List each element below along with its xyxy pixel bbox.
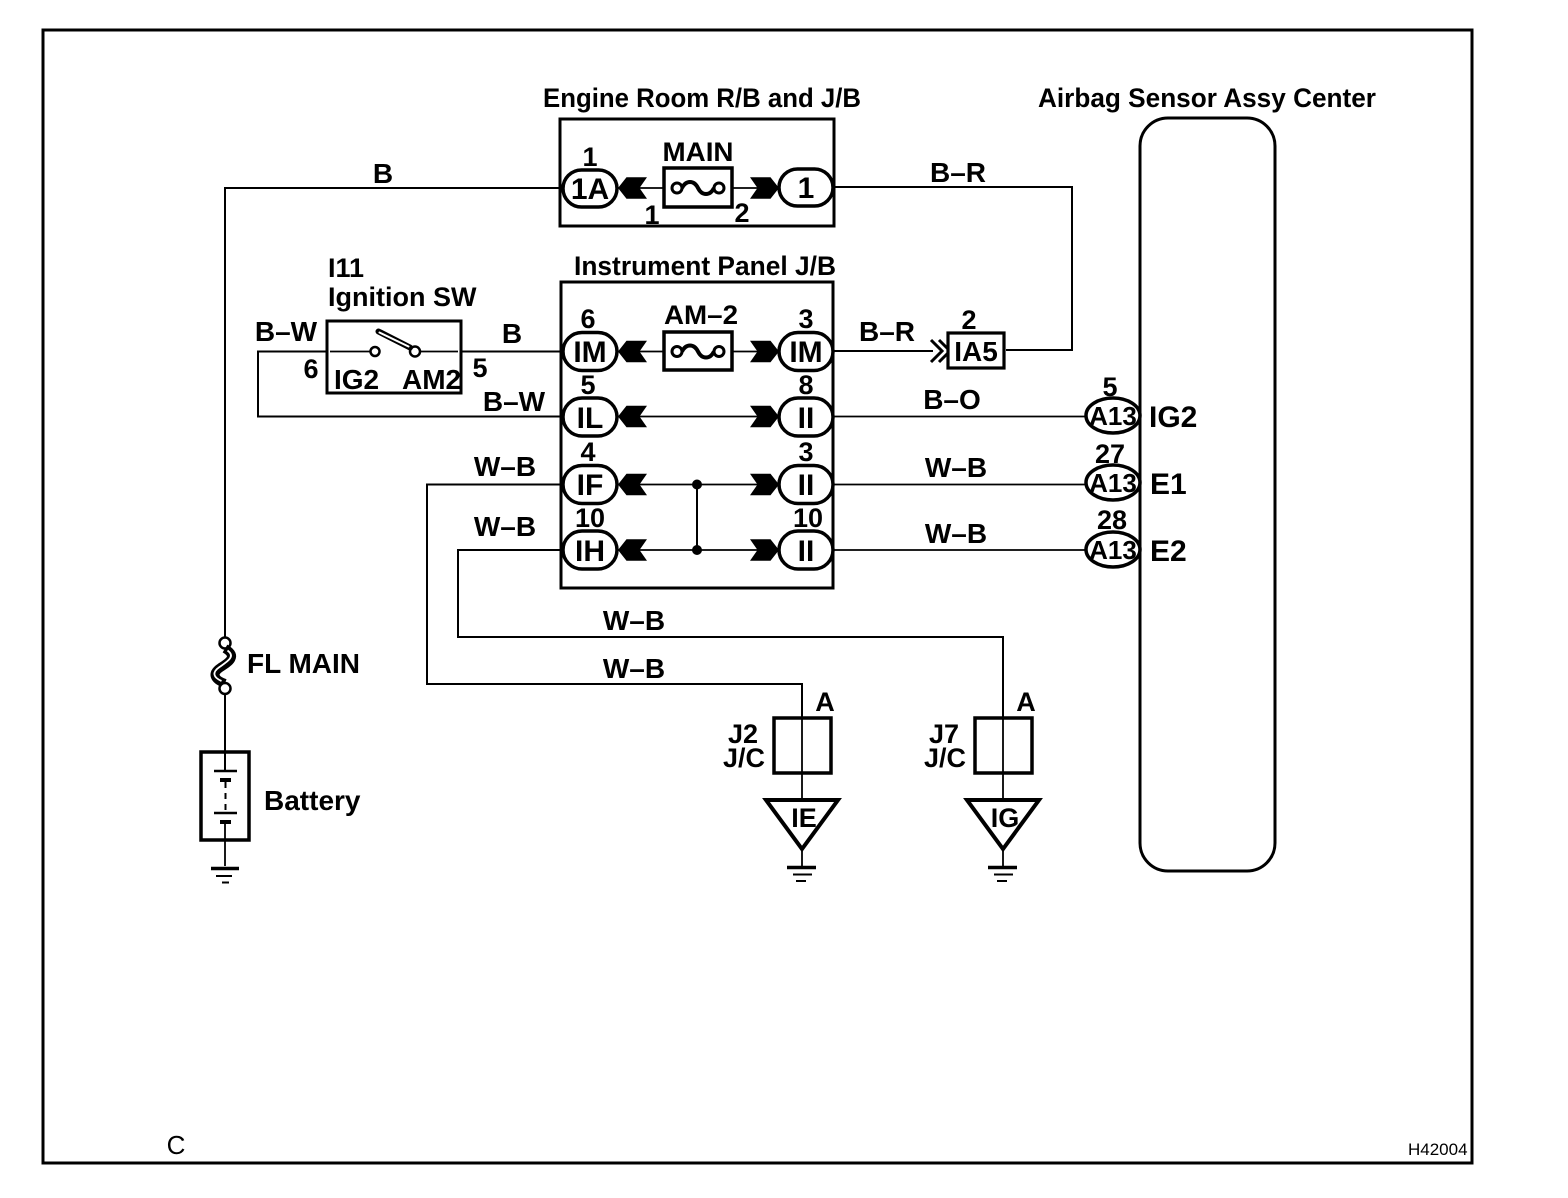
wire B-O (II pin 8 to A13 IG2) [833, 416, 1086, 418]
svg-text:W–B: W–B [603, 605, 665, 636]
svg-text:2: 2 [734, 198, 749, 228]
connector A13 pin 27 (E1) [1086, 439, 1187, 501]
svg-text:B: B [502, 318, 522, 349]
wire W-B (II pin 3 to A13 E1) [833, 484, 1086, 486]
connector 1A pin 1 [563, 142, 617, 207]
fuse MAIN [663, 137, 734, 207]
svg-text:IL: IL [577, 402, 604, 435]
fusible link FL MAIN [214, 638, 360, 695]
svg-text:I11: I11 [328, 253, 364, 283]
connector IA5 pin 2 [931, 305, 1004, 368]
svg-text:FL MAIN: FL MAIN [247, 648, 360, 679]
bus wire linking IF and IH rows [692, 480, 702, 556]
svg-text:B–W: B–W [255, 316, 318, 347]
fuse AM-2 [664, 300, 738, 370]
svg-text:AM–2: AM–2 [664, 300, 738, 330]
svg-text:AM2: AM2 [402, 364, 461, 395]
ground (battery) [211, 869, 239, 883]
wire B (AM2 to IM) [461, 351, 563, 353]
wire W-B (IF to J2 junction) [427, 485, 802, 719]
wire (FL MAIN to battery) [224, 694, 226, 771]
airbag sensor assy center [1038, 83, 1376, 871]
svg-text:3: 3 [798, 304, 813, 334]
svg-text:E1: E1 [1150, 468, 1187, 501]
svg-text:2: 2 [961, 305, 976, 335]
junction connector J2 J/C pin A [723, 687, 835, 773]
connector II pin 8 [779, 370, 833, 436]
svg-text:Airbag Sensor Assy Center: Airbag Sensor Assy Center [1038, 83, 1376, 113]
connector A13 pin 5 (IG2) [1086, 372, 1197, 434]
svg-text:A13: A13 [1089, 535, 1137, 565]
svg-text:4: 4 [580, 437, 595, 467]
svg-text:3: 3 [798, 437, 813, 467]
ground IG [967, 800, 1039, 881]
connector 1 [779, 169, 833, 206]
svg-text:II: II [798, 402, 815, 435]
svg-text:10: 10 [575, 503, 605, 533]
connector IH pin 10 [563, 503, 617, 569]
wire arrow (left, to IL) [618, 406, 647, 427]
svg-text:IM: IM [789, 336, 822, 369]
svg-text:W–B: W–B [474, 511, 536, 542]
wire arrow (right, to IM pin 3) [732, 341, 779, 362]
connector A13 pin 28 (E2) [1086, 505, 1187, 568]
svg-text:Ignition SW: Ignition SW [328, 282, 477, 312]
battery [201, 752, 361, 866]
svg-text:IH: IH [575, 535, 605, 568]
svg-text:Instrument Panel J/B: Instrument Panel J/B [574, 251, 836, 281]
wire W-B (IH to J7 junction) [458, 550, 1003, 718]
wire B-R (IM pin 3 to IA5) [833, 350, 933, 352]
svg-text:6: 6 [303, 354, 318, 384]
svg-text:B–R: B–R [859, 316, 915, 347]
svg-text:A: A [1016, 687, 1036, 717]
wire arrow (right, to II pin 10) [750, 539, 779, 560]
wire (J2 to ground IE) [801, 718, 803, 800]
connector II pin 3 [779, 437, 833, 504]
connector IM pin 6 [563, 304, 617, 371]
ground IE [766, 800, 838, 881]
wire arrow (left, to IH) [618, 539, 647, 560]
svg-text:IG: IG [991, 803, 1020, 833]
svg-text:5: 5 [580, 370, 595, 400]
svg-text:8: 8 [798, 370, 813, 400]
wire B (battery feed up-left and across to 1A) [225, 188, 562, 640]
svg-text:MAIN: MAIN [663, 137, 734, 167]
svg-text:IG2: IG2 [1149, 401, 1197, 434]
svg-text:W–B: W–B [603, 653, 665, 684]
connector IF pin 4 [563, 437, 617, 504]
connector IM pin 3 [779, 304, 833, 371]
svg-text:W–B: W–B [925, 452, 987, 483]
ignition switch I11 [327, 253, 477, 395]
svg-text:J/C: J/C [723, 743, 765, 773]
svg-text:J/C: J/C [924, 743, 966, 773]
svg-text:1A: 1A [571, 173, 609, 206]
svg-text:B–O: B–O [923, 384, 981, 415]
svg-text:II: II [798, 535, 815, 568]
svg-text:A13: A13 [1089, 468, 1137, 498]
wire W-B (II pin 10 to A13 E2) [833, 549, 1086, 551]
svg-text:Battery: Battery [264, 785, 361, 816]
svg-text:IG2: IG2 [334, 364, 379, 395]
wire arrow (right, to II pin 3) [750, 474, 779, 495]
wire B-R (connector 1 to IA5) [833, 187, 1072, 350]
junction block Engine Room R/B and J/B [543, 83, 861, 226]
connector II pin 10 [779, 503, 833, 569]
wire (IF to II) [617, 484, 779, 486]
wire arrow (right, to II pin 8) [750, 406, 779, 427]
svg-text:1: 1 [798, 172, 815, 205]
svg-text:B–R: B–R [930, 157, 986, 188]
svg-text:A13: A13 [1089, 401, 1137, 431]
svg-text:6: 6 [580, 304, 595, 334]
svg-text:Engine Room R/B and J/B: Engine Room R/B and J/B [543, 83, 861, 113]
svg-text:IE: IE [791, 803, 817, 833]
connector IL pin 5 [563, 370, 617, 436]
svg-text:10: 10 [793, 503, 823, 533]
svg-text:5: 5 [472, 353, 487, 383]
svg-text:IA5: IA5 [954, 336, 998, 367]
svg-text:B–W: B–W [483, 386, 546, 417]
wire arrow (left, to 1A) [617, 177, 664, 198]
svg-text:IM: IM [573, 336, 606, 369]
junction block Instrument Panel J/B [561, 251, 836, 588]
wire arrow (right, to connector 1) [732, 177, 779, 198]
svg-text:W–B: W–B [925, 518, 987, 549]
wire (IL to II) [617, 416, 779, 418]
junction connector J7 J/C pin A [924, 687, 1036, 773]
svg-text:E2: E2 [1150, 535, 1187, 568]
svg-text:H42004: H42004 [1408, 1140, 1468, 1159]
svg-text:1: 1 [644, 200, 659, 230]
wire arrow (left, to IM) [617, 341, 664, 362]
wire (J7 to ground IG) [1002, 718, 1004, 800]
svg-text:A: A [815, 687, 835, 717]
svg-text:IF: IF [577, 469, 604, 502]
wire B-W (IG2 to IL) [258, 352, 562, 417]
wire (IH to II) [617, 549, 779, 551]
svg-text:II: II [798, 469, 815, 502]
wire arrow (left, to IF) [618, 474, 647, 495]
svg-text:B: B [373, 158, 393, 189]
svg-text:W–B: W–B [474, 451, 536, 482]
svg-text:C: C [167, 1130, 186, 1160]
svg-text:1: 1 [582, 142, 597, 172]
